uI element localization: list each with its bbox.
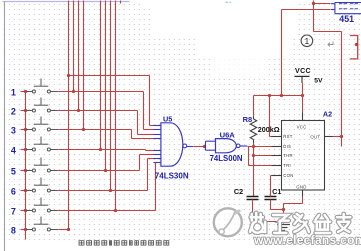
wire stub key 8 <box>21 229 26 231</box>
wire VCC rail <box>254 95 303 97</box>
wire into pin1 <box>150 125 154 127</box>
svg-text:OUT: OUT <box>310 134 320 139</box>
wire stub key 4 <box>21 149 26 151</box>
junction v1 row8 <box>67 228 70 231</box>
svg-text:451: 451 <box>339 14 354 24</box>
wire row3 into pin4 <box>132 138 154 140</box>
wire row5 into pin6 <box>140 154 154 156</box>
svg-text:GND: GND <box>296 184 306 189</box>
wire to 4511 pin1 <box>314 3 331 5</box>
pin RST stub <box>272 136 282 138</box>
switch S1 <box>26 79 58 94</box>
wire R8 node vertical <box>253 143 255 156</box>
wire bus line 5 vertical <box>100 1 102 150</box>
wire U6A out to DIS <box>248 146 272 148</box>
svg-text:7: 7 <box>11 207 16 217</box>
junction v2 row1 <box>72 90 75 93</box>
wire to 4511 pin2 <box>282 9 331 11</box>
wire bus line 8 vertical <box>115 1 117 211</box>
power VCC symbol <box>295 75 310 77</box>
junction bus row6 <box>24 189 27 192</box>
pin TRI stub <box>272 165 282 167</box>
pin OUT stub <box>325 136 333 138</box>
svg-text:U5: U5 <box>163 114 172 123</box>
svg-text:200kΩ: 200kΩ <box>258 125 280 134</box>
svg-text:C1: C1 <box>272 187 281 196</box>
wire row2 horizontal <box>59 110 138 112</box>
op-amp A2 555 timer body <box>282 121 325 191</box>
svg-text:5: 5 <box>11 167 16 177</box>
junction v8 row7 <box>114 209 117 212</box>
wire row5 horizontal <box>59 170 140 172</box>
op-amp U5 output bubble <box>183 144 187 148</box>
wire row7 stair up <box>155 163 157 211</box>
wire row4 horizontal <box>59 149 146 151</box>
wire stub key 2 <box>21 110 26 112</box>
wire stub key 5 <box>21 170 26 172</box>
junction v4 row3 <box>82 128 85 131</box>
connector bracket right edge <box>350 36 358 59</box>
svg-text:TRI: TRI <box>283 163 291 168</box>
wire row8 to v1 <box>59 229 69 231</box>
svg-text:VCC: VCC <box>295 68 311 75</box>
junction bus row8 <box>24 228 27 231</box>
wire riser to top <box>341 32 343 147</box>
junction gnd C2 <box>282 220 285 223</box>
svg-text:A2: A2 <box>323 110 332 119</box>
ground <box>277 225 290 231</box>
op-amp U6A gate body <box>216 139 237 153</box>
wire row8 to gate horizontal <box>69 75 150 77</box>
svg-text:3: 3 <box>11 126 16 136</box>
svg-text:2: 2 <box>11 107 16 117</box>
wire row3 stair <box>131 130 133 139</box>
wire top vertical <box>313 1 315 32</box>
wire row4 into pin5 <box>146 150 154 152</box>
capacitor C1 <box>265 197 277 200</box>
wire left key bus vertical <box>25 92 27 240</box>
wire row7 into pin8 <box>153 162 155 164</box>
wire bus line 3 vertical <box>78 1 80 111</box>
wire to TRI pin <box>249 165 272 167</box>
wire node to C2 <box>253 156 255 197</box>
wire C2 to gnd riser <box>253 221 284 223</box>
wire rail to RST <box>269 96 271 137</box>
junction bus row4 <box>24 148 27 151</box>
junction v3 row2 <box>77 109 80 112</box>
svg-text:U6A: U6A <box>220 130 236 139</box>
junction bus row1 <box>24 90 27 93</box>
wire row1 into pin2 <box>144 129 154 131</box>
wire row4 jog <box>145 150 147 151</box>
annotation return mark <box>328 42 333 47</box>
wire to THR pin <box>254 155 272 157</box>
wire OUT <box>333 136 342 138</box>
wire stub key 6 <box>21 190 26 192</box>
junction R8 bottom <box>252 145 255 148</box>
svg-text:6: 6 <box>11 187 16 197</box>
watermark logo circle <box>214 208 242 236</box>
junction bracket <box>355 43 358 46</box>
op-amp U6A output bubble <box>236 144 240 148</box>
junction bus row7 <box>24 209 27 212</box>
junction bus row2 <box>24 109 27 112</box>
capacitor C2 <box>247 197 259 200</box>
wire stub top edge <box>120 1 122 4</box>
junction rail 4511 feed <box>280 94 283 97</box>
junction gnd C1 <box>282 208 285 211</box>
wire stair down to pin1 <box>149 76 151 126</box>
wire gnd riser <box>283 204 285 224</box>
svg-text:5V: 5V <box>314 77 323 84</box>
wire row1 horizontal <box>59 91 144 93</box>
wire bus line 4 vertical <box>83 1 85 130</box>
wire row2 stair <box>137 111 139 135</box>
svg-text:1: 1 <box>305 36 310 46</box>
svg-text:www.elecfans.com: www.elecfans.com <box>253 233 361 247</box>
wire bus line 6 vertical <box>105 1 107 171</box>
wire bus line 2 vertical <box>73 1 75 92</box>
svg-text:VCC: VCC <box>297 125 307 130</box>
wire row5 stair up <box>139 155 141 171</box>
4511 tiny pin text <box>339 3 358 9</box>
junction THR C2 <box>252 154 255 157</box>
switch S8 <box>26 217 58 232</box>
wire top horizontal <box>314 31 342 33</box>
wire row6 horizontal <box>59 190 148 192</box>
wire row7 horizontal <box>59 210 156 212</box>
svg-text:74LS30N: 74LS30N <box>155 171 189 180</box>
junction rail VCC pin <box>301 94 304 97</box>
switch S6 <box>26 178 58 193</box>
pin DIS stub <box>272 146 282 148</box>
wire rail to 555 VCC pin <box>302 96 304 113</box>
wire rail up to 4511 <box>281 10 283 96</box>
resistor R8 leads <box>253 117 255 120</box>
junction rail RST <box>268 94 271 97</box>
svg-text:THR: THR <box>283 153 293 158</box>
wire stub key 3 <box>21 129 26 131</box>
pin CON stub <box>272 175 282 177</box>
wire row1 stair <box>143 92 145 130</box>
wire C1 down <box>270 200 272 210</box>
wire rail down to R8 <box>253 96 255 117</box>
op-amp U? 4511 decoder fragment <box>331 3 361 14</box>
sheet border left line <box>4 2 6 251</box>
wire CON to C1 <box>270 176 272 197</box>
wire row3 horizontal <box>59 129 132 131</box>
junction OUT riser <box>340 135 343 138</box>
pin GND stub <box>302 190 304 197</box>
wire C1 to gnd riser <box>271 209 284 211</box>
junction bus row3 <box>24 128 27 131</box>
pin THR stub <box>272 155 282 157</box>
wire down to TRI <box>248 147 250 166</box>
svg-text:1: 1 <box>11 88 16 98</box>
op-amp U5 gate body <box>161 123 183 166</box>
wire row6 into pin7 <box>148 158 154 160</box>
op-amp U5 8-input NAND 74LS30N pins <box>153 125 161 127</box>
switch S2 <box>26 98 58 113</box>
wire bus line 1 vertical <box>68 1 70 230</box>
junction v7 row6 <box>109 189 112 192</box>
svg-text:RST: RST <box>283 134 293 139</box>
svg-text:DIS: DIS <box>283 144 291 149</box>
resistor R8 zigzag <box>250 119 256 140</box>
svg-text:74LS00N: 74LS00N <box>210 154 243 163</box>
wire GND down <box>302 197 304 204</box>
switch S4 <box>26 137 58 152</box>
caption text bottom <box>79 241 169 245</box>
svg-text:C2: C2 <box>234 187 243 196</box>
wire stub key 7 <box>21 210 26 212</box>
wire stub key 1 <box>21 91 26 93</box>
watermark CJK text 电子发烧友 (pseudo-glyphs) <box>250 213 350 233</box>
junction bus row5 <box>24 169 27 172</box>
wire U5 output to U6A input <box>194 146 206 148</box>
switch S5 <box>26 158 58 173</box>
wire C2 down <box>252 200 254 222</box>
switch S3 <box>26 117 58 132</box>
wire row6 stair up <box>147 159 149 191</box>
op-amp U6A NAND 74LS00N input tie <box>206 141 216 150</box>
wire into RST <box>270 136 272 138</box>
wire row2 into pin3 <box>138 134 154 136</box>
pin VCC stub <box>302 113 304 121</box>
junction v6 row5 <box>104 169 107 172</box>
switch S7 <box>26 198 58 213</box>
junction v1 branch <box>67 74 70 77</box>
wire GND left <box>284 203 303 205</box>
svg-text:8: 8 <box>11 226 16 236</box>
junction U6A tied inputs <box>203 145 206 148</box>
svg-text:4: 4 <box>11 146 16 156</box>
svg-text:R8: R8 <box>243 115 253 124</box>
wire bus line 7 vertical <box>110 1 112 191</box>
junction v5 row4 <box>99 148 102 151</box>
junction top edge <box>312 2 315 5</box>
sheet border top line <box>3 1 130 3</box>
annotation corner mark <box>226 1 232 3</box>
wire CON stub <box>271 175 272 177</box>
annotation circled 1 <box>301 35 313 47</box>
svg-text:CON: CON <box>283 173 293 178</box>
